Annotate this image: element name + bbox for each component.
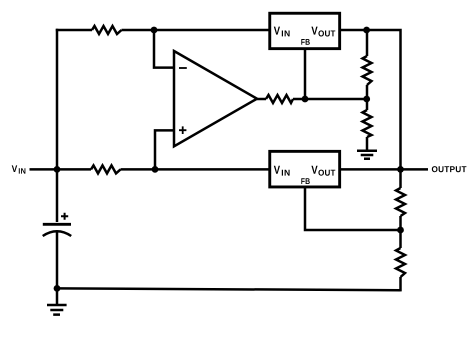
resistor R2 input [91,165,121,173]
plus sign non-inverting input [179,126,186,134]
resistor R4 divider upper [363,56,372,85]
wire left rail [56,29,59,170]
node ground return left [54,285,61,292]
wire R3 to divider node [293,98,367,101]
ground left [47,305,67,315]
wire capacitor top lead [56,169,59,222]
label U1 FB pin [301,39,310,45]
resistor R1 feedback top [92,26,122,34]
node output junction [397,166,404,173]
label OUTPUT [432,166,467,172]
capacitor C1 plus sign [61,213,68,220]
node inverting tap [151,27,158,34]
resistor R6 output divider upper [396,188,405,216]
wire U3 Vout to output [341,168,428,171]
node U1 Vout [363,27,370,34]
node Vin entry [54,166,61,173]
label U3 FB pin [301,178,310,184]
node FB-bottom junction [397,227,404,234]
capacitor C1 curved plate [43,231,71,236]
wire output node to R6 [399,169,402,188]
node FB-top junction [302,96,309,103]
wire to inverting input [154,30,174,68]
regulator U1 box [270,13,340,48]
node divider mid [363,96,370,103]
ground divider [357,151,377,159]
label U3 VIN pin [274,166,280,174]
wire R2 to U3 Vin [121,168,270,171]
bottom return wire [57,288,401,290]
label U3 VOUT pin [311,166,317,174]
wire U1 Vout to right rail [341,30,401,169]
label U1 VIN pin [274,27,280,35]
wire FB pin U1 [304,49,307,99]
op-amp U2 [174,51,257,146]
wire R5 to ground [366,137,369,150]
wire R4 to R5 [366,85,369,110]
resistor R3 op-amp output [266,95,293,103]
wire R7 to bottom return [399,277,402,291]
wire Vin label to R2 [30,168,92,171]
wire Vout node to R4 [366,30,369,56]
resistor R5 divider lower [363,110,372,137]
wire op-amp output [257,98,266,101]
wire FB pin U3 [305,187,401,231]
regulator U3 box [270,151,340,187]
wire top left segment [56,29,92,32]
label U1 VOUT pin [311,27,317,35]
capacitor C1 top plate [43,223,71,226]
wire R6 to R7 [399,216,402,248]
label VIN input [12,165,18,172]
wire R1 to U1 Vin [122,29,270,32]
wire capacitor bottom lead [56,233,59,305]
minus sign inverting input [179,67,187,69]
wire to non-inverting input [155,130,174,169]
resistor R7 output divider lower [396,248,405,277]
node non-inverting tap [152,166,159,173]
